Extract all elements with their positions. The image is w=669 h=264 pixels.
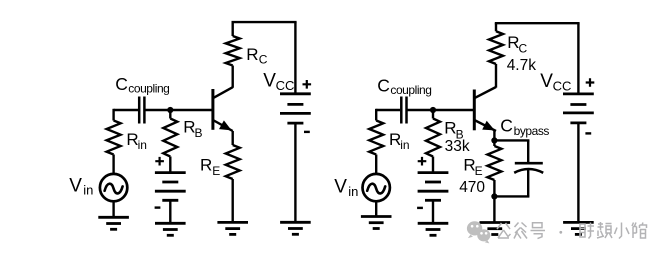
svg-text:C: C xyxy=(115,74,128,94)
wire: Vin branch down xyxy=(112,109,114,121)
svg-text:C: C xyxy=(500,116,513,136)
battery VCC (right) xyxy=(563,94,594,123)
label RC (right) xyxy=(507,33,527,56)
label Rin (right) xyxy=(389,130,410,152)
svg-text:in: in xyxy=(138,138,147,152)
wire: RB to battery xyxy=(169,157,171,173)
wire: Vin source to ground xyxy=(112,202,114,217)
node: base junction dot (left) xyxy=(167,107,173,113)
wire: RB to battery (right) xyxy=(432,157,434,173)
watermark text 公众号·射频小馆 xyxy=(497,222,647,239)
wire: RE to bottom node xyxy=(493,180,495,196)
wire: top rail (right) xyxy=(495,22,580,24)
ground of VCC (right) xyxy=(563,222,594,234)
svg-text:bypass: bypass xyxy=(514,124,550,138)
svg-text:V: V xyxy=(263,70,276,91)
label - (left VCC) xyxy=(304,131,310,133)
label Ccoupling (right) xyxy=(377,76,431,98)
svg-text:E: E xyxy=(212,164,220,178)
transistor Q1 (NPN) xyxy=(213,87,233,131)
battery VBB (right) xyxy=(418,173,449,201)
ground of RE (right) xyxy=(480,223,511,235)
resistor RE 470 (right) xyxy=(493,140,495,146)
label RB (left) xyxy=(183,117,202,140)
wire: bypass cap to bottom xyxy=(527,170,529,197)
svg-text:B: B xyxy=(195,126,203,140)
label - (left battery) xyxy=(155,206,161,208)
wire: coupling cap to base xyxy=(144,109,213,111)
node: base junction dot (right) xyxy=(430,107,436,113)
label Vin (right) xyxy=(334,177,358,200)
wire: top rail down to VCC battery xyxy=(294,22,296,94)
label + (right VCC) xyxy=(586,78,595,87)
label Vin (left) xyxy=(69,175,93,197)
svg-text:coupling: coupling xyxy=(128,82,169,96)
resistor Rin (right) xyxy=(369,121,383,155)
wire: Rin to Vin source (right) xyxy=(375,155,377,174)
svg-text:in: in xyxy=(83,183,93,198)
wire: Vin branch down (right) xyxy=(375,109,377,121)
ground of RB battery (right) xyxy=(418,223,449,235)
node: emitter junction dot top xyxy=(491,137,497,143)
svg-text:V: V xyxy=(540,71,553,92)
label Cbypass xyxy=(500,116,549,139)
label RB (right) xyxy=(444,119,463,142)
wire: input node to coupling cap xyxy=(114,109,138,111)
label RE (left) xyxy=(200,155,220,178)
wire: collector up to RC (right) xyxy=(495,64,497,88)
label RE (right) xyxy=(463,156,482,179)
wire: input node to coupling cap (right) xyxy=(376,109,400,111)
wire: VCC battery to ground (right) xyxy=(577,123,579,222)
svg-text:coupling: coupling xyxy=(390,83,431,97)
label - (right battery) xyxy=(417,207,423,209)
svg-text:CC: CC xyxy=(276,78,295,93)
wire: Vin source to ground (right) xyxy=(375,202,377,217)
wire: emitter down to RE xyxy=(231,131,233,145)
label VCC (right) xyxy=(540,71,571,93)
battery VCC (left) xyxy=(280,94,311,123)
capacitor Cbypass xyxy=(514,163,543,173)
svg-text:4.7k: 4.7k xyxy=(507,57,537,74)
svg-text:C: C xyxy=(259,52,268,66)
ground of Vin (right) xyxy=(361,217,392,229)
svg-text:R: R xyxy=(200,155,212,174)
wire: RC to top rail xyxy=(231,22,233,36)
label + (right battery) xyxy=(418,157,427,166)
battery VBB (left) xyxy=(155,173,186,201)
resistor RE (left) xyxy=(226,145,240,179)
svg-text:C: C xyxy=(377,76,390,96)
ground of RB battery (left) xyxy=(155,223,186,235)
ground of Vin (left) xyxy=(98,217,129,229)
svg-text:V: V xyxy=(334,177,347,198)
wire: bypass branch right down xyxy=(527,140,529,163)
wire: VCC battery to ground xyxy=(294,123,296,222)
svg-text:in: in xyxy=(400,138,409,152)
resistor RB (left) xyxy=(163,119,177,157)
label + (left battery) xyxy=(155,157,164,166)
capacitor Ccoupling (left) xyxy=(139,97,144,124)
source Vin (left AC source) xyxy=(100,174,127,201)
svg-text:V: V xyxy=(69,175,82,196)
svg-text:470: 470 xyxy=(459,179,485,196)
svg-text:33k: 33k xyxy=(445,138,470,155)
wire: top rail down to VCC battery (right) xyxy=(577,23,579,94)
wire: RB branch down xyxy=(169,110,171,119)
resistor RB 33k (right) xyxy=(426,119,440,157)
label - (right VCC) xyxy=(585,132,591,134)
wire: Rin to Vin source xyxy=(112,155,114,174)
label + (left VCC) xyxy=(303,80,312,89)
ground of VCC (left) xyxy=(280,222,311,234)
svg-text:R: R xyxy=(246,45,258,64)
capacitor Ccoupling (right) xyxy=(401,97,406,124)
wire: bypass branch top xyxy=(494,139,529,141)
wire: RC to top rail (right) xyxy=(495,23,497,31)
wire: coupling cap to base (right) xyxy=(407,109,475,111)
resistor Rin (left) xyxy=(107,121,121,155)
resistor RC 4.7k (right) xyxy=(489,31,503,64)
svg-text:C: C xyxy=(519,41,528,55)
label Ccoupling (left) xyxy=(115,74,169,96)
wire: emitter node to ground xyxy=(493,196,495,222)
label Rin (left) xyxy=(126,130,147,152)
label RC (left) xyxy=(246,45,267,67)
wire: RE to ground xyxy=(231,179,233,222)
svg-text:E: E xyxy=(475,164,483,178)
wire: collector up to RC xyxy=(231,66,233,88)
wire: bypass branch bottom xyxy=(494,195,529,197)
wire: top rail (left) xyxy=(232,21,297,23)
watermark wechat logo xyxy=(467,221,491,243)
label VCC (left) xyxy=(263,70,294,93)
source Vin (right AC source) xyxy=(363,174,390,201)
wire: emitter down to bypass node xyxy=(493,131,495,140)
resistor RC (left) xyxy=(226,36,240,66)
node: emitter junction dot bottom xyxy=(491,193,497,199)
wire: battery to ground (right) xyxy=(432,200,434,223)
wire: RB branch down (right) xyxy=(432,110,434,119)
svg-text:in: in xyxy=(348,184,358,199)
transistor Q2 (NPN) xyxy=(474,87,496,131)
ground of RE (left) xyxy=(217,222,248,234)
svg-text:CC: CC xyxy=(553,78,572,93)
wire: battery to ground xyxy=(169,200,171,223)
